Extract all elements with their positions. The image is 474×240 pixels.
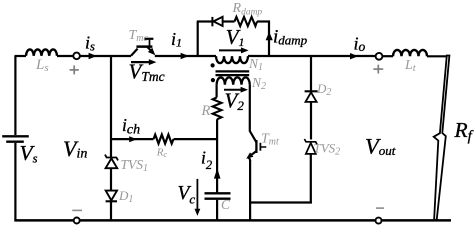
wire Tmt emitter vertical [249, 160, 251, 220]
TVS2 [304, 139, 317, 145]
svg-text:Rf: Rf [454, 118, 474, 145]
inductor Lt [393, 50, 427, 56]
dot secondary [211, 78, 215, 82]
wire R to ich junction to capacitor [216, 119, 218, 192]
wire [198, 55, 216, 57]
svg-text:i2: i2 [201, 147, 212, 172]
svg-text:Tmt: Tmt [261, 131, 279, 147]
arrowhead is [89, 53, 97, 59]
wire [427, 55, 448, 57]
wire [110, 168, 112, 190]
wire [382, 55, 393, 57]
svg-text:Lt: Lt [404, 58, 417, 74]
wire secondary right leg / Tmt collector [249, 85, 251, 132]
wire [155, 55, 198, 57]
svg-text:i1: i1 [171, 29, 182, 50]
svg-text:D2: D2 [316, 81, 331, 98]
wire top rail middle-right [248, 55, 376, 57]
resistor Rc [154, 135, 174, 144]
node terminal circle top-left [73, 53, 80, 60]
node terminal circle top-right [376, 53, 383, 60]
battery Vs [2, 135, 29, 137]
svg-text:Vout: Vout [365, 134, 396, 159]
svg-text:Ls: Ls [35, 57, 49, 74]
resistor R [213, 97, 222, 119]
wire TVS2 bottom to emitter [250, 201, 312, 203]
svg-text:io: io [354, 34, 366, 55]
load Rf lightning bolt [434, 56, 450, 220]
transformer secondary winding N2 [217, 77, 250, 84]
arrowhead i2 (up) [214, 168, 221, 178]
svg-text:is: is [85, 33, 95, 54]
transformer core [216, 70, 250, 72]
svg-text:C: C [221, 197, 231, 212]
wire [174, 138, 218, 140]
wire damp branch left vertical [197, 22, 199, 58]
svg-text:Vs: Vs [20, 141, 38, 166]
TVS1 [105, 155, 118, 161]
minus mark right [376, 207, 384, 209]
wire [223, 20, 235, 22]
wire top rail seg1 [15, 55, 27, 57]
wire ich horizontal [111, 138, 154, 140]
arrow V2 (right) [224, 89, 242, 91]
wire [57, 55, 74, 57]
arrowhead i_damp [266, 32, 273, 41]
svg-text:TVS1: TVS1 [121, 157, 149, 174]
wire [257, 20, 270, 22]
diode D2 [305, 90, 318, 92]
plus mark right [373, 65, 383, 74]
svg-text:N2: N2 [251, 75, 266, 92]
dot primary [211, 63, 215, 67]
node terminal circle bottom-left [74, 218, 80, 224]
bottom rail [14, 219, 451, 222]
transformer primary winding N1 [216, 56, 248, 63]
diode D1 [106, 191, 117, 201]
wire damp branch right vertical [268, 21, 270, 57]
wire branch Tvs1/D1 vertical top [110, 56, 112, 157]
svg-text:idamp: idamp [273, 27, 308, 48]
transistor Tmc [131, 49, 138, 56]
wire secondary left leg [216, 85, 218, 98]
svg-text:TVS2: TVS2 [314, 141, 341, 158]
arrowhead i1 [181, 53, 189, 59]
minus mark left [72, 209, 82, 211]
svg-text:Vin: Vin [63, 136, 87, 162]
arrowhead ich [129, 136, 137, 142]
svg-text:R: R [201, 103, 211, 119]
svg-text:V1: V1 [226, 25, 245, 49]
arrow Vc (down) [196, 179, 198, 210]
svg-text:N1: N1 [248, 56, 263, 73]
wire D2 branch vertical [310, 56, 312, 91]
node terminal circle bottom-right [376, 218, 382, 224]
wire top-left vertical [14, 56, 16, 135]
capacitor C [205, 192, 231, 194]
wire [80, 55, 131, 57]
svg-text:Vc: Vc [178, 183, 196, 207]
transistor Tmt [250, 131, 257, 142]
arrowhead io [350, 53, 358, 59]
plus mark left [70, 65, 79, 74]
inductor Ls [26, 49, 57, 55]
diode damp (points left) [211, 17, 213, 26]
arrow VTmc (right) [131, 61, 151, 63]
arrow V1 (right) [219, 49, 242, 51]
svg-text:Rc: Rc [156, 147, 168, 160]
svg-text:Rdamp: Rdamp [232, 1, 263, 18]
resistor Rdamp [235, 17, 258, 26]
wire damp branch top [197, 20, 213, 22]
svg-text:D1: D1 [118, 188, 133, 205]
svg-text:Tmc: Tmc [129, 28, 149, 44]
wire [110, 201, 112, 220]
svg-text:ich: ich [122, 115, 140, 138]
